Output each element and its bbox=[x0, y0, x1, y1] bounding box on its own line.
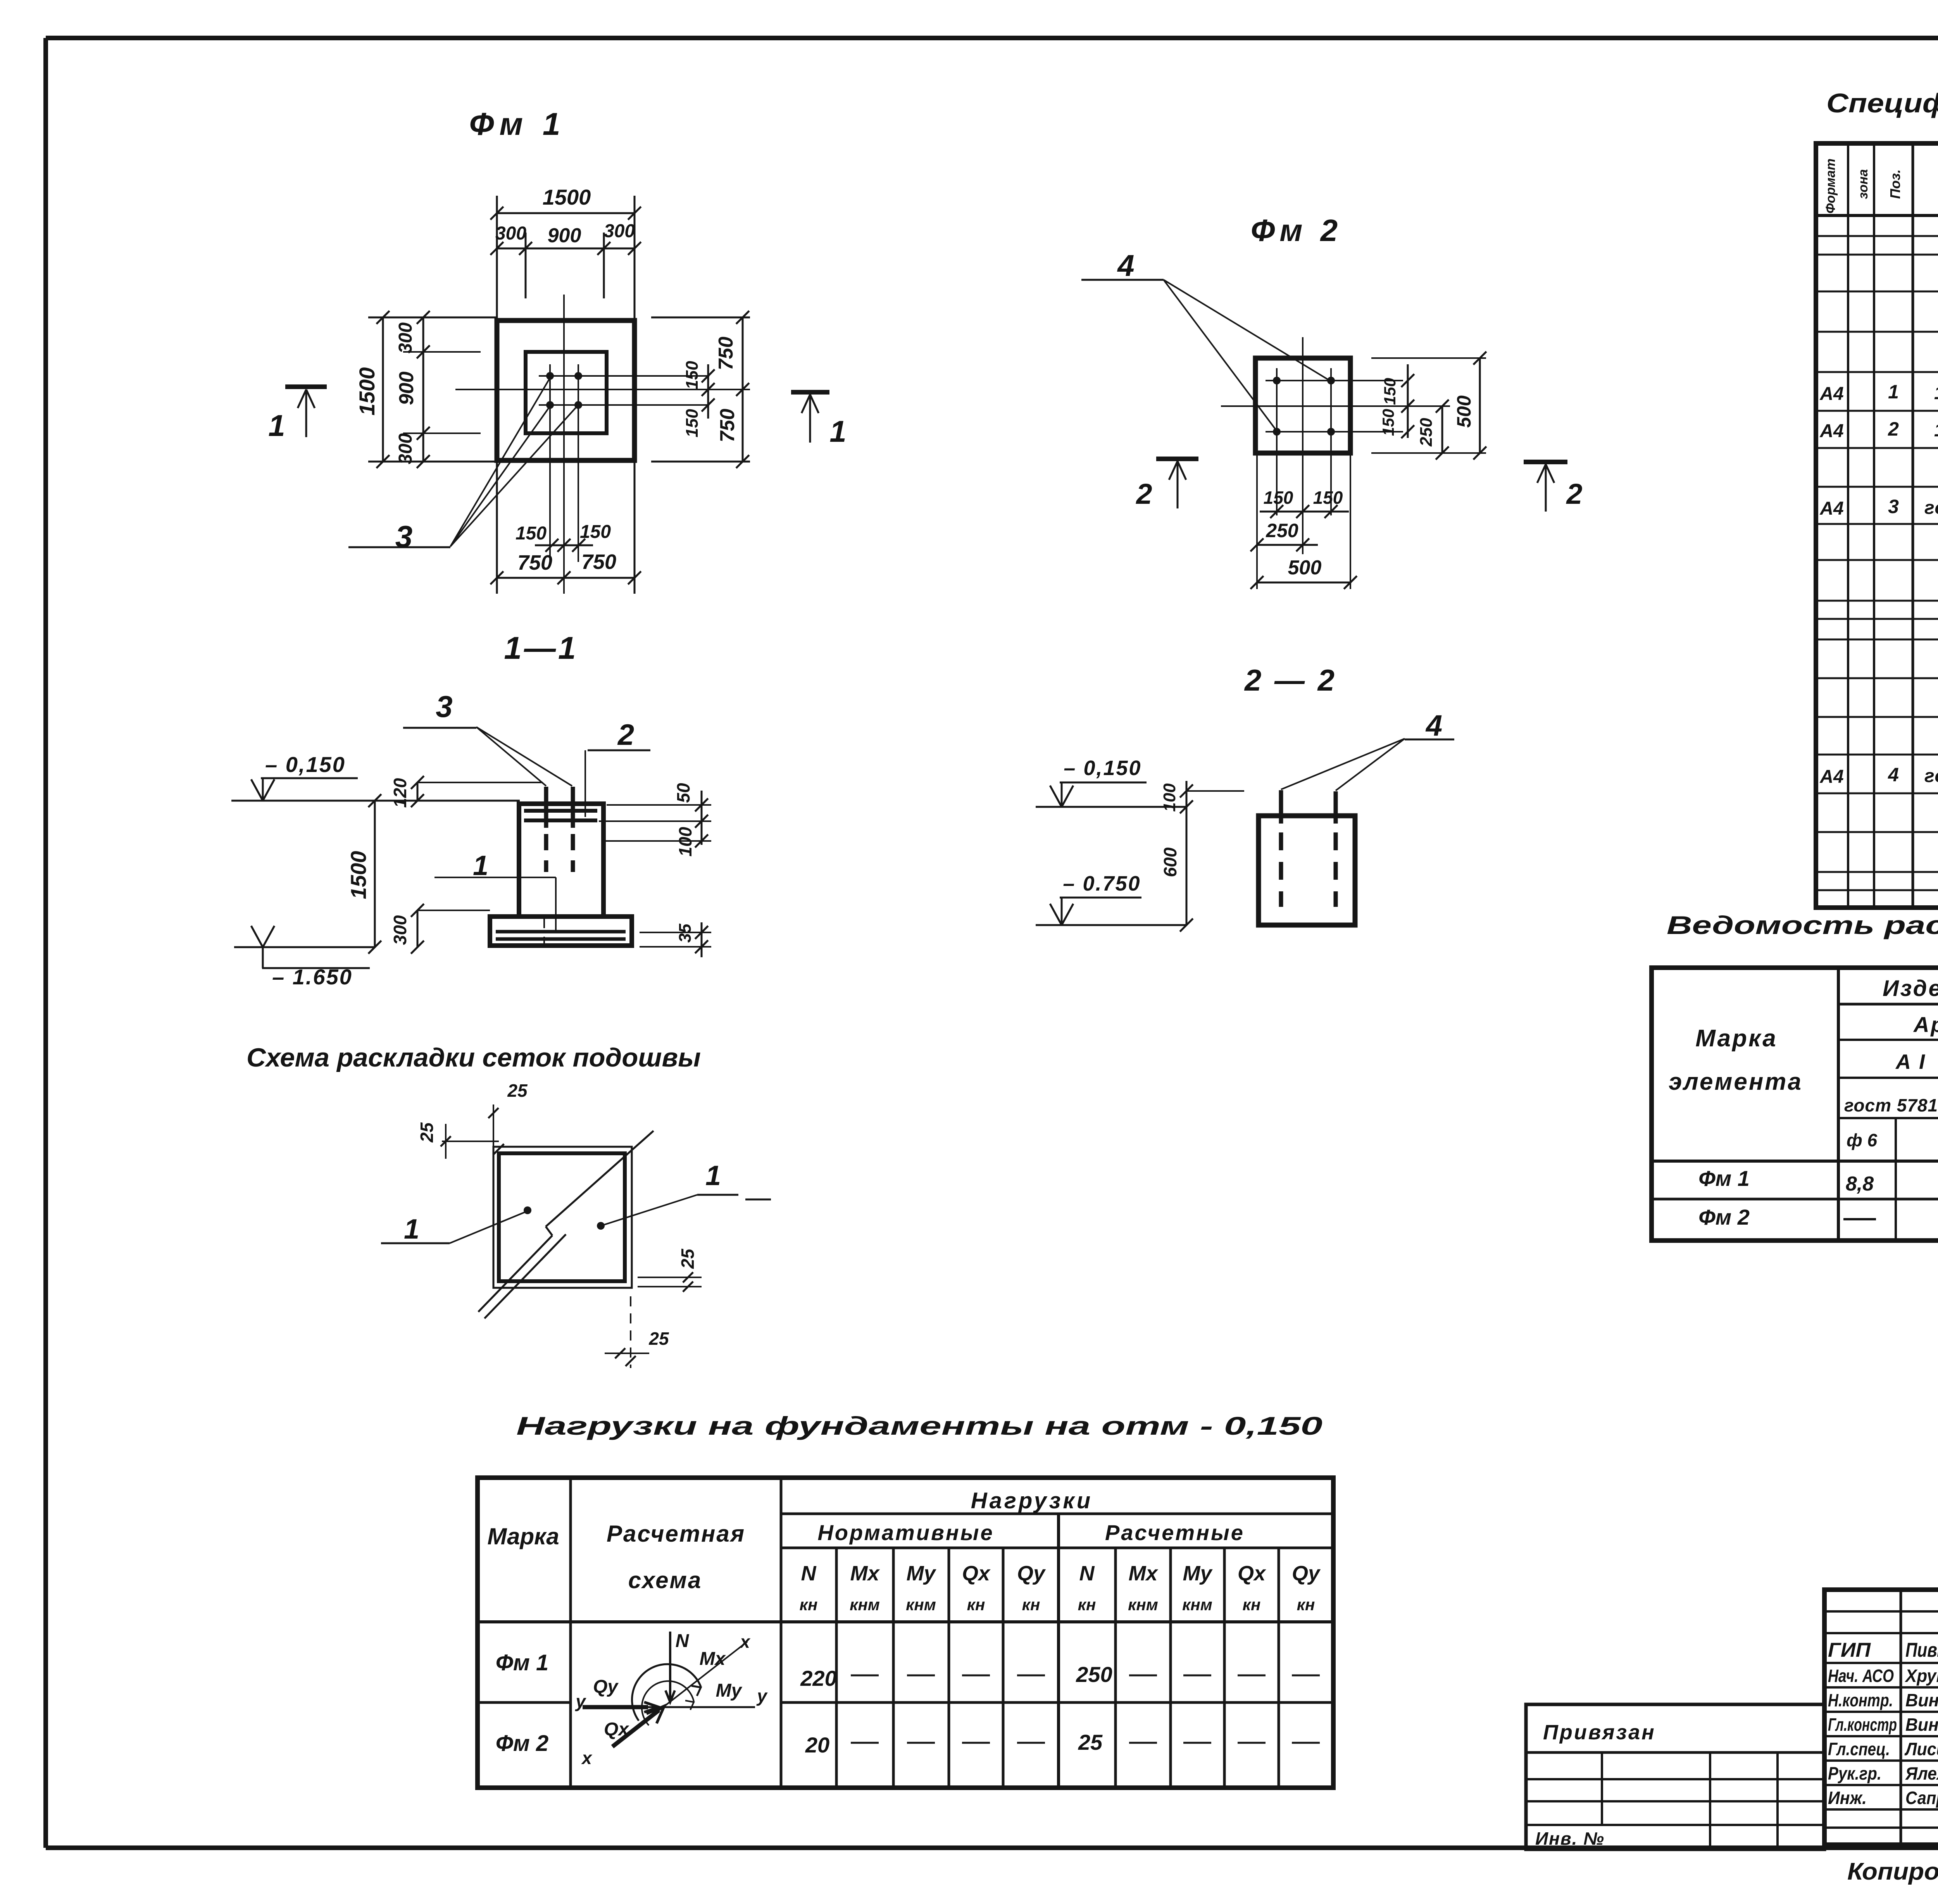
svg-text:Винклер.: Винклер. bbox=[1905, 1714, 1938, 1735]
Fm2 bottom extension lines bbox=[1256, 453, 1258, 589]
specification table row lines bbox=[1816, 235, 1938, 237]
svg-text:Сапрошина: Сапрошина bbox=[1905, 1788, 1938, 1808]
signatures table outer bbox=[1824, 1590, 1938, 1845]
svg-text:схема: схема bbox=[628, 1567, 702, 1593]
svg-text:ГИП: ГИП bbox=[1828, 1639, 1871, 1661]
svg-text:Нагрузки: Нагрузки bbox=[971, 1488, 1093, 1513]
svg-text:Qу: Qу bbox=[1292, 1562, 1321, 1585]
svg-text:Изделия арматурные: Изделия арматурные bbox=[1883, 976, 1938, 1001]
svg-text:4: 4 bbox=[1425, 709, 1442, 742]
svg-text:Схема раскладки сеток подош: Схема раскладки сеток подошвы bbox=[247, 1043, 701, 1072]
svg-text:1500: 1500 bbox=[543, 185, 591, 209]
steel table verticals bbox=[1837, 968, 1840, 1241]
Fm1 right extension lines bbox=[651, 317, 750, 319]
svg-text:500: 500 bbox=[1288, 557, 1322, 579]
Fm1 anchor bolts (4 dots) bbox=[546, 372, 554, 380]
svg-text:8,8: 8,8 bbox=[1846, 1173, 1874, 1195]
svg-text:Ведомость расхода стали н: Ведомость расхода стали на элемент, кг bbox=[1667, 911, 1938, 939]
svg-text:150: 150 bbox=[1313, 488, 1343, 508]
svg-text:250: 250 bbox=[1266, 520, 1298, 541]
Fm2 dimension 150 150 (right) bbox=[1407, 364, 1409, 438]
ground level line (-0.150) bbox=[231, 800, 520, 802]
svg-text:2: 2 bbox=[1888, 418, 1899, 440]
svg-text:900: 900 bbox=[395, 372, 418, 405]
svg-text:элемента: элемента bbox=[1669, 1068, 1803, 1095]
svg-text:Привязан: Привязан bbox=[1543, 1721, 1656, 1744]
svg-text:Mу: Mу bbox=[1183, 1562, 1213, 1585]
Qy thick arrow bbox=[583, 1705, 648, 1709]
Fm1 dimension 300 900 300 (top) bbox=[497, 248, 635, 250]
svg-text:25: 25 bbox=[417, 1122, 437, 1143]
svg-text:1: 1 bbox=[705, 1160, 721, 1191]
dimension 100 (right) bbox=[695, 834, 708, 848]
svg-text:1—1: 1—1 bbox=[504, 631, 578, 666]
svg-text:гост 24379.1- 80: гост 24379.1- 80 bbox=[1924, 766, 1938, 786]
signatures table verticals bbox=[1900, 1590, 1902, 1845]
Fm2 bolt axis lines bbox=[1266, 380, 1403, 381]
Fm1 dimension 150 150 (bottom) bbox=[535, 544, 593, 546]
svg-text:750: 750 bbox=[716, 409, 739, 443]
svg-text:300: 300 bbox=[395, 433, 416, 464]
svg-text:Mх: Mх bbox=[850, 1562, 880, 1585]
dimension 120 (left) bbox=[417, 782, 419, 801]
section mark 2 (right of Fm2) bbox=[1524, 460, 1567, 464]
svg-text:Пивторак: Пивторак bbox=[1905, 1639, 1938, 1661]
svg-text:Арматура класса: Арматура класса bbox=[1913, 1012, 1938, 1037]
svg-text:– 0,150: – 0,150 bbox=[265, 752, 346, 777]
svg-text:250: 250 bbox=[1417, 418, 1436, 447]
anchor bolts in section (item 3) bbox=[544, 787, 548, 828]
specification table header row bbox=[1816, 214, 1938, 217]
svg-text:1: 1 bbox=[829, 414, 846, 448]
svg-text:кн: кн bbox=[967, 1596, 985, 1614]
svg-text:Нач. АСО: Нач. АСО bbox=[1828, 1666, 1894, 1686]
mesh scheme outer square (footing edge) bbox=[493, 1147, 632, 1288]
Fm2 anchor bolts (4 dots) bbox=[1273, 377, 1281, 384]
svg-text:2: 2 bbox=[617, 719, 634, 751]
svg-text:2: 2 bbox=[1566, 478, 1582, 510]
svg-text:750: 750 bbox=[517, 551, 552, 574]
Fm1 outer square 1500x1500 bbox=[497, 320, 635, 460]
mesh scheme diagonal break line bbox=[478, 1235, 552, 1312]
footing bottom mesh bars (item 1) bbox=[496, 930, 626, 934]
Fm2 dimension 500 (bottom) bbox=[1257, 582, 1350, 584]
svg-text:Mх: Mх bbox=[1128, 1562, 1158, 1585]
Fm1 dimension 300 900 300 (left) bbox=[422, 317, 424, 462]
svg-text:600: 600 bbox=[1160, 847, 1180, 877]
svg-text:кн: кн bbox=[1297, 1596, 1315, 1614]
svg-text:150: 150 bbox=[1379, 409, 1397, 436]
svg-text:1: 1 bbox=[1888, 381, 1899, 403]
Qx thick arrow bbox=[612, 1710, 659, 1747]
svg-text:100: 100 bbox=[1160, 783, 1179, 812]
pedestal top mesh bars (item 2) bbox=[524, 809, 597, 813]
svg-text:1500: 1500 bbox=[355, 367, 379, 416]
svg-text:300: 300 bbox=[604, 221, 635, 241]
svg-text:Фм 2: Фм 2 bbox=[1251, 213, 1342, 248]
dimension 1500 (section) bbox=[374, 801, 376, 947]
svg-text:Рук.гр.: Рук.гр. bbox=[1828, 1763, 1881, 1783]
section 1-1 footing slab outline bbox=[490, 917, 632, 946]
loads table row lines bbox=[781, 1513, 1333, 1515]
Fm1 inner square (pedestal 900x900) bbox=[526, 352, 607, 433]
svg-text:4: 4 bbox=[1117, 248, 1134, 283]
svg-text:Qу: Qу bbox=[593, 1677, 619, 1697]
svg-text:Mу: Mу bbox=[716, 1680, 743, 1701]
svg-text:1: 1 bbox=[268, 408, 285, 443]
svg-text:Qх: Qх bbox=[962, 1562, 991, 1585]
dim 600 (section 2-2) bbox=[1186, 807, 1188, 925]
Fm1 dimension 150 150 (right) bbox=[707, 364, 709, 419]
svg-text:– 0.750: – 0.750 bbox=[1063, 872, 1141, 895]
Fm1 dimension 750 750 (bottom) bbox=[497, 577, 635, 579]
svg-text:120: 120 bbox=[390, 778, 410, 808]
svg-text:– 1.650: – 1.650 bbox=[272, 965, 353, 989]
svg-text:Расчетная: Расчетная bbox=[607, 1521, 745, 1547]
My arc bbox=[642, 1681, 694, 1725]
svg-text:ф 6: ф 6 bbox=[1847, 1130, 1877, 1150]
Fm1 dimension 750 750 (right) bbox=[742, 317, 744, 462]
svg-text:у: у bbox=[575, 1691, 586, 1711]
Fm2 dimension 150 150 (bottom) bbox=[1260, 511, 1349, 513]
dim 100 (bolt protrusion) bbox=[1186, 790, 1244, 792]
svg-text:1500: 1500 bbox=[346, 851, 371, 899]
svg-text:кнм: кнм bbox=[1182, 1596, 1212, 1614]
svg-text:25: 25 bbox=[678, 1248, 698, 1269]
svg-text:Расчетные: Расчетные bbox=[1105, 1520, 1245, 1545]
Fm1 dimension 1500 (top) bbox=[497, 212, 635, 214]
svg-text:3: 3 bbox=[436, 689, 452, 724]
svg-text:Qх: Qх bbox=[604, 1719, 629, 1740]
svg-text:Ялехо ва: Ялехо ва bbox=[1905, 1763, 1938, 1783]
signatures table rows bbox=[1824, 1610, 1938, 1613]
svg-text:Н.контр.: Н.контр. bbox=[1828, 1690, 1893, 1710]
svg-text:1: 1 bbox=[404, 1214, 419, 1245]
svg-text:20: 20 bbox=[805, 1733, 829, 1757]
dimension 50 (right) bbox=[607, 804, 711, 806]
svg-text:кнм: кнм bbox=[906, 1596, 936, 1614]
svg-text:900: 900 bbox=[548, 224, 581, 247]
mesh scheme mesh square (item 1) bbox=[499, 1153, 625, 1281]
specification table outer box bbox=[1816, 143, 1938, 908]
svg-text:150: 150 bbox=[580, 522, 611, 542]
section 1-1 pedestal outline bbox=[519, 804, 603, 917]
svg-text:250: 250 bbox=[1076, 1662, 1112, 1687]
svg-text:500: 500 bbox=[1453, 395, 1475, 428]
svg-text:кн: кн bbox=[1243, 1596, 1261, 1614]
svg-text:150: 150 bbox=[683, 361, 702, 389]
section mark 2 (left of Fm2) bbox=[1156, 457, 1198, 461]
svg-text:Копировал Волкова: Копировал Волкова bbox=[1847, 1858, 1938, 1885]
loads table outer box bbox=[478, 1478, 1333, 1788]
specification table column lines bbox=[1847, 143, 1849, 908]
svg-text:х: х bbox=[739, 1632, 751, 1652]
svg-text:Фм 1: Фм 1 bbox=[469, 107, 566, 142]
privyazan block bbox=[1526, 1704, 1824, 1849]
svg-text:Поз.: Поз. bbox=[1887, 169, 1903, 199]
svg-text:Mу: Mу bbox=[906, 1562, 936, 1585]
svg-text:Фм 2: Фм 2 bbox=[496, 1731, 549, 1756]
svg-text:50: 50 bbox=[673, 783, 693, 803]
svg-text:4: 4 bbox=[1888, 764, 1899, 786]
svg-text:Фм 1: Фм 1 bbox=[496, 1650, 549, 1675]
svg-text:зона: зона bbox=[1856, 169, 1871, 199]
svg-text:кн: кн bbox=[1078, 1596, 1096, 1614]
svg-text:Mх: Mх bbox=[700, 1649, 726, 1669]
svg-text:Нагрузки на фундаменты на: Нагрузки на фундаменты на отм - 0,150 bbox=[516, 1411, 1322, 1440]
calculation scheme sketch (axes N Mx My Qx Qy) bbox=[669, 1632, 671, 1701]
Mx arc bbox=[632, 1664, 701, 1721]
svg-text:300: 300 bbox=[390, 915, 410, 945]
svg-text:750: 750 bbox=[581, 550, 616, 574]
svg-text:Марка: Марка bbox=[1695, 1025, 1777, 1052]
svg-text:Гл.спец.: Гл.спец. bbox=[1828, 1739, 1890, 1759]
svg-text:Инв. №: Инв. № bbox=[1535, 1828, 1605, 1849]
svg-text:150: 150 bbox=[516, 523, 547, 544]
svg-text:220: 220 bbox=[800, 1666, 836, 1690]
Fm2 dimension 500 (right) bbox=[1479, 358, 1481, 453]
svg-text:1. 410 - 2: 1. 410 - 2 bbox=[1934, 383, 1938, 403]
svg-text:25: 25 bbox=[1078, 1730, 1103, 1754]
svg-text:гост 5781- 82: гост 5781- 82 bbox=[1844, 1095, 1938, 1115]
svg-text:кн: кн bbox=[1022, 1596, 1040, 1614]
svg-text:35: 35 bbox=[676, 924, 695, 943]
Fm1 dimension 1500 (left) bbox=[382, 317, 384, 462]
svg-text:А4: А4 bbox=[1819, 384, 1843, 404]
Fm2 dimension 250 (right) bbox=[1441, 406, 1443, 453]
Fm1 left extension lines bbox=[368, 317, 497, 319]
steel table horizontals bbox=[1838, 1003, 1938, 1006]
svg-text:кнм: кнм bbox=[850, 1596, 880, 1614]
svg-text:3: 3 bbox=[395, 519, 413, 554]
level mark -1.650 bbox=[234, 946, 375, 948]
Fm1 bolt axis lines bbox=[539, 375, 709, 377]
drawing frame border bbox=[46, 36, 1938, 40]
svg-text:N: N bbox=[676, 1631, 690, 1651]
svg-text:Нормативные: Нормативные bbox=[817, 1520, 994, 1545]
svg-text:А I: А I bbox=[1895, 1050, 1926, 1073]
svg-text:Хрупало: Хрупало bbox=[1904, 1666, 1938, 1686]
svg-text:Фм 1: Фм 1 bbox=[1698, 1166, 1750, 1191]
svg-text:Qу: Qу bbox=[1017, 1562, 1046, 1585]
svg-text:150: 150 bbox=[1381, 378, 1399, 405]
svg-text:– 0,150: – 0,150 bbox=[1064, 756, 1141, 780]
svg-text:у: у bbox=[756, 1686, 768, 1706]
Fm2 square 500x500 bbox=[1255, 358, 1350, 453]
svg-text:кн: кн bbox=[800, 1596, 818, 1614]
section mark 1 (left of Fm1) bbox=[285, 384, 327, 389]
svg-text:Qх: Qх bbox=[1238, 1562, 1266, 1585]
svg-text:N: N bbox=[801, 1562, 817, 1585]
svg-text:А4: А4 bbox=[1819, 767, 1843, 787]
svg-text:25: 25 bbox=[648, 1328, 669, 1349]
svg-text:кнм: кнм bbox=[1128, 1596, 1158, 1614]
svg-text:Фм 2: Фм 2 bbox=[1698, 1205, 1750, 1229]
svg-text:2: 2 bbox=[1135, 478, 1152, 510]
section 2-2 footing outline bbox=[1259, 816, 1355, 925]
svg-text:300: 300 bbox=[395, 322, 416, 353]
svg-text:Марка: Марка bbox=[487, 1523, 559, 1549]
Fm2 dimension 250 (bottom) bbox=[1257, 544, 1318, 546]
svg-text:Винклер: Винклер bbox=[1905, 1690, 1938, 1710]
svg-text:Гл.констр: Гл.констр bbox=[1828, 1714, 1897, 1735]
svg-text:25: 25 bbox=[507, 1080, 528, 1101]
svg-text:3: 3 bbox=[1888, 496, 1899, 517]
svg-text:N: N bbox=[1079, 1562, 1095, 1585]
dimension 300 (section) bbox=[417, 910, 419, 947]
svg-text:2 — 2: 2 — 2 bbox=[1244, 663, 1337, 697]
svg-text:А4: А4 bbox=[1819, 421, 1843, 441]
Fm2 right extension lines bbox=[1371, 357, 1486, 359]
svg-text:Инж.: Инж. bbox=[1828, 1788, 1867, 1808]
svg-text:Спецификация фундаментов Фм1,·: Спецификация фундаментов Фм1,·Фм2 bbox=[1826, 88, 1938, 118]
hidden pedestal inner dashed line bbox=[543, 917, 545, 946]
svg-text:1. 412 - 1/77: 1. 412 - 1/77 bbox=[1934, 420, 1938, 441]
Fm1 center lines bbox=[563, 295, 565, 512]
section mark 1 (right of Fm1) bbox=[791, 390, 829, 395]
svg-text:гост 24379.1- 80: гост 24379.1- 80 bbox=[1924, 498, 1938, 518]
svg-text:150: 150 bbox=[683, 409, 702, 438]
Fm1 leader 3 to anchor bolts bbox=[348, 546, 450, 548]
svg-text:Формат: Формат bbox=[1823, 159, 1838, 214]
svg-text:300: 300 bbox=[495, 223, 526, 244]
section 2-2 anchor bolts bbox=[1279, 790, 1283, 824]
steel table outer box bbox=[1652, 968, 1938, 1241]
svg-text:750: 750 bbox=[715, 337, 737, 370]
loads table column lines bbox=[569, 1478, 572, 1788]
svg-text:х: х bbox=[581, 1748, 593, 1768]
svg-text:150: 150 bbox=[1264, 488, 1293, 508]
dimension 35 (right) bbox=[640, 932, 711, 933]
svg-text:Лисичкин: Лисичкин bbox=[1904, 1739, 1938, 1759]
svg-text:А4: А4 bbox=[1819, 498, 1843, 519]
Fm2 center lines bbox=[1302, 337, 1303, 554]
